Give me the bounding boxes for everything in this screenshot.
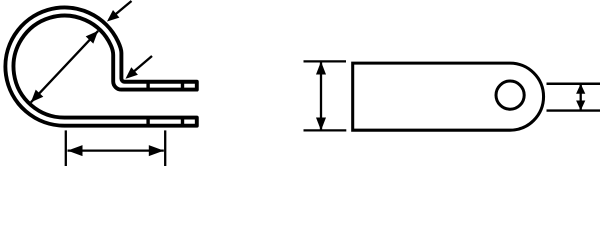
tab height dimension arrow (double headed vertical)	[316, 62, 326, 131]
hole diameter dimension: top extension line	[547, 83, 600, 85]
clamp top view: tab outline with rounded end	[353, 63, 544, 130]
tab height dimension: bottom extension line	[304, 129, 347, 131]
hole diameter dimension arrow (double headed vertical)	[576, 84, 585, 111]
tab height dimension: top extension line	[304, 60, 347, 62]
inner diameter dimension arrow (double headed diagonal)	[31, 31, 98, 102]
hole hidden edge line, top strip left	[146, 82, 149, 90]
leader arrow to inner bend corner	[126, 56, 153, 79]
leader arrow to outer surface (top)	[107, 1, 132, 22]
bottom width dimension: left extension line	[65, 130, 67, 166]
clamp side view: loop and tab outline	[5, 7, 196, 125]
bottom width dimension arrow (double headed horizontal)	[68, 145, 164, 156]
hole diameter dimension: bottom extension line	[547, 109, 600, 111]
hole hidden edge line, bottom strip left	[146, 118, 149, 126]
mounting hole	[496, 81, 524, 109]
hole hidden edge line, top strip right	[181, 82, 184, 90]
hole hidden edge line, bottom strip right	[181, 118, 184, 126]
bottom width dimension: right extension line	[164, 130, 166, 166]
